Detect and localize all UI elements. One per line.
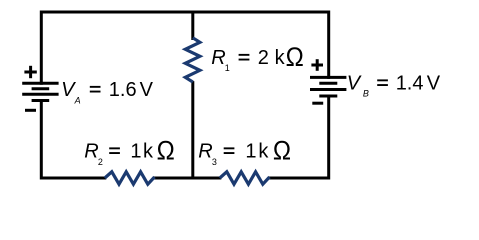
svg-text:R: R <box>211 47 225 69</box>
svg-text:1: 1 <box>130 141 141 163</box>
svg-text:V: V <box>347 73 362 95</box>
svg-text:1.6: 1.6 <box>109 79 137 101</box>
svg-text:R: R <box>84 141 98 163</box>
svg-text:1: 1 <box>245 141 256 163</box>
svg-text:R: R <box>198 141 212 163</box>
svg-text:2: 2 <box>258 47 269 69</box>
svg-text:k: k <box>275 47 286 69</box>
svg-text:Ω: Ω <box>273 136 291 165</box>
svg-text:A: A <box>74 95 81 105</box>
svg-text:k: k <box>258 141 269 163</box>
svg-text:3: 3 <box>212 157 217 167</box>
svg-text:Ω: Ω <box>286 43 304 72</box>
svg-text:V: V <box>140 79 154 101</box>
svg-text:Ω: Ω <box>157 136 175 165</box>
svg-text:1: 1 <box>225 63 230 73</box>
svg-text:1.4: 1.4 <box>396 73 424 95</box>
svg-text:k: k <box>143 141 154 163</box>
svg-text:B: B <box>363 89 369 99</box>
svg-text:V: V <box>427 73 441 95</box>
svg-text:2: 2 <box>98 157 103 167</box>
